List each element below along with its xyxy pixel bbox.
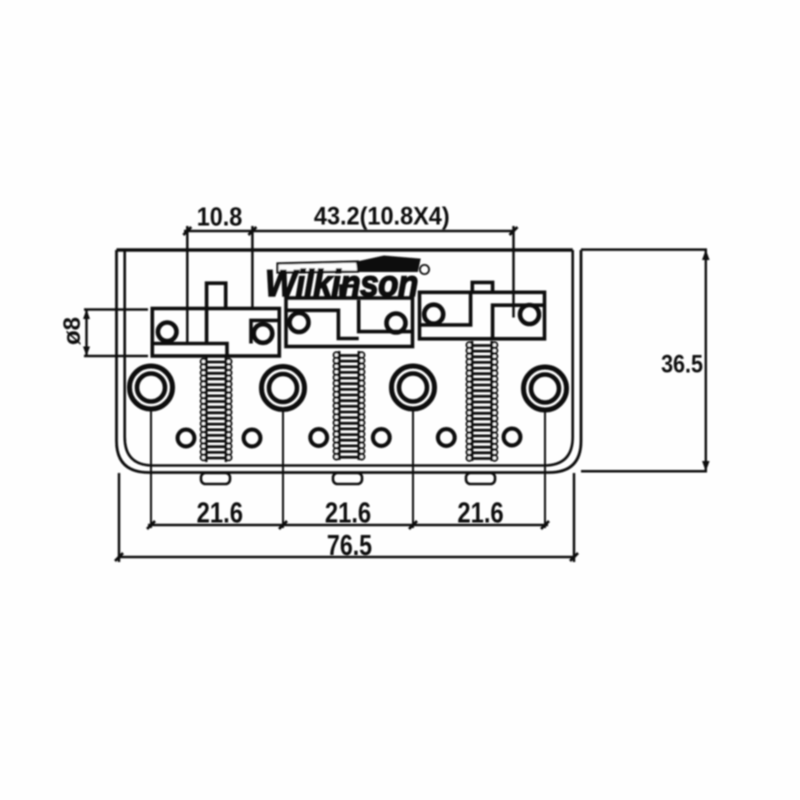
top dimension extension line a [186, 226, 189, 344]
svg-text:76.5: 76.5 [327, 528, 372, 561]
string hole H4 [524, 367, 567, 410]
svg-text:10.8: 10.8 [197, 203, 243, 231]
svg-text:36.5: 36.5 [661, 350, 703, 378]
screw foot pad 2 [333, 473, 362, 484]
76.5 extension left [118, 473, 121, 562]
svg-text:ø8: ø8 [59, 317, 86, 345]
top dimension extension line b [251, 226, 254, 309]
mounting screw hole M2 [244, 430, 261, 447]
bridge plate outer outline [117, 250, 582, 473]
Wilkinson logo registered mark [420, 265, 429, 274]
dimension texts [59, 203, 703, 562]
76.5 dimension line [119, 556, 574, 559]
phi8 dimension leaders [84, 310, 148, 357]
intonation screw thread rod 3 [467, 341, 498, 461]
bridge plate inner (rolled edge) line [125, 250, 573, 466]
76.5 extension right [573, 473, 576, 562]
centerline below hole 1 [150, 411, 152, 529]
tick marks 76.5 [115, 553, 578, 561]
tick marks top dimension [183, 227, 517, 235]
Wilkinson logo ribbon left [278, 262, 359, 273]
svg-text:43.2(10.8X4): 43.2(10.8X4) [314, 203, 450, 231]
string hole H1 [130, 366, 173, 409]
saddle S1 right screw hole [254, 324, 273, 343]
saddle S3 left screw hole [424, 305, 443, 324]
tick marks 21.6 [147, 521, 549, 529]
saddle S3 step lines [420, 292, 545, 339]
Wilkinson logo flag right [357, 257, 420, 272]
mounting screw hole M3 [310, 429, 327, 446]
centerline below hole 4 [544, 412, 546, 529]
screw foot pad 3 [466, 473, 495, 484]
mounting screw hole M4 [373, 429, 390, 446]
saddle S2 right screw hole [387, 314, 406, 333]
phi8 arrows [83, 310, 90, 357]
screw foot pad 1 [201, 473, 230, 484]
36.5 extension bottom [581, 470, 707, 473]
top dimension line [184, 230, 514, 233]
saddle S1 tall tab [207, 283, 226, 343]
svg-text:21.6: 21.6 [197, 496, 243, 529]
saddle S2 left screw hole [290, 313, 309, 332]
36.5 arrows [702, 250, 710, 472]
centerline below hole 3 [412, 411, 414, 529]
saddle S2 body [286, 298, 413, 347]
intonation screw thread rod 1 [201, 358, 232, 463]
saddle S3 right screw hole [520, 305, 539, 324]
Wilkinson logo text [265, 263, 418, 304]
svg-text:21.6: 21.6 [325, 496, 371, 529]
saddle S3 tab [472, 282, 492, 292]
string hole H3 [392, 366, 435, 409]
top dimension extension line c [512, 226, 515, 318]
mounting screw hole M5 [438, 429, 455, 446]
saddle S2 tab [341, 286, 356, 298]
mounting screw hole M6 [504, 429, 521, 446]
saddle S1 left screw hole [158, 323, 177, 342]
svg-text:21.6: 21.6 [457, 496, 503, 529]
21.6 dimension line [148, 524, 548, 527]
36.5 extension top [581, 248, 707, 251]
saddle S1 body [152, 309, 279, 357]
svg-text:Wilkinson: Wilkinson [265, 263, 418, 304]
saddle S1 step lines [152, 320, 279, 356]
saddle S2 step lines [286, 300, 413, 339]
mounting screw hole M1 [178, 430, 195, 447]
bridge plate top edge [117, 248, 573, 252]
36.5 dimension line [705, 250, 707, 472]
string hole H2 [262, 367, 305, 410]
intonation screw thread rod 2 [334, 351, 365, 460]
phi8 dimension line [85, 310, 88, 357]
centerline below hole 2 [282, 411, 284, 528]
saddle S3 body [420, 292, 545, 339]
